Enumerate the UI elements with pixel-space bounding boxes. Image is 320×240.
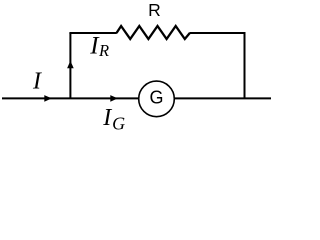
- wire: left vertical branch: [69, 33, 71, 98]
- svg-text:R: R: [98, 41, 109, 60]
- wire: bottom horizontal conductor: [2, 97, 271, 99]
- arrowhead: current I_R on vertical branch (up): [67, 61, 74, 69]
- svg-text:G: G: [112, 114, 125, 130]
- svg-text:I: I: [102, 105, 112, 130]
- svg-text:G: G: [150, 88, 164, 108]
- galvanometer U1 circle: [139, 81, 175, 117]
- resistor R: [117, 26, 190, 39]
- arrowhead: current I_G before galvanometer: [110, 95, 118, 102]
- wire: top right horizontal segment: [190, 32, 246, 34]
- svg-text:I: I: [32, 69, 42, 95]
- svg-text:R: R: [148, 0, 161, 20]
- wire: right vertical segment: [244, 33, 246, 98]
- arrowhead: current I on left bottom wire: [44, 95, 52, 102]
- wire: top left horizontal segment: [69, 32, 116, 34]
